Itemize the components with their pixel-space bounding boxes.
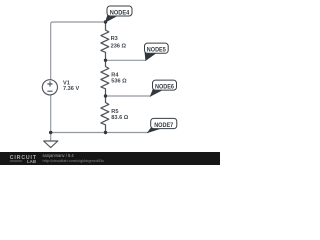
footer watermark bar bbox=[0, 152, 220, 165]
junction dot top of chain bbox=[104, 20, 107, 23]
schematic background bbox=[0, 0, 220, 165]
junction node bottom of chain bbox=[104, 131, 107, 134]
ground bbox=[44, 141, 58, 148]
svg-text:http://circuitlab.com/c/gkkbgm: http://circuitlab.com/c/gkkbgmxd93c bbox=[43, 158, 105, 163]
junction node between R4 and R5 bbox=[104, 94, 107, 97]
wire: left vertical below source down to ground stub bbox=[50, 95, 52, 141]
svg-text:536 Ω: 536 Ω bbox=[111, 79, 127, 85]
svg-text:7.36 V: 7.36 V bbox=[63, 86, 79, 92]
label V1 value bbox=[63, 80, 79, 92]
svg-text:236 Ω: 236 Ω bbox=[111, 43, 127, 49]
footer credit text bbox=[43, 153, 105, 163]
svg-text:LAB: LAB bbox=[27, 159, 36, 164]
resistor R5 bbox=[101, 96, 109, 133]
wire: bottom horizontal run bbox=[51, 132, 149, 134]
svg-text:NODE4: NODE4 bbox=[110, 9, 130, 16]
wire: left vertical top + top horizontal run to resistor chain bbox=[51, 22, 106, 80]
junction node at ground bbox=[49, 131, 52, 134]
node NODE5 flag bbox=[145, 43, 169, 60]
wire: NODE6 stub bbox=[106, 95, 152, 97]
voltage source V1 bbox=[42, 80, 57, 95]
node NODE4 flag bbox=[106, 6, 133, 22]
svg-text:NODE7: NODE7 bbox=[154, 122, 173, 129]
resistor R3 bbox=[101, 22, 109, 60]
svg-text:NODE5: NODE5 bbox=[147, 47, 166, 54]
CircuitLab logo bbox=[10, 155, 37, 164]
node NODE6 flag bbox=[151, 80, 177, 96]
svg-text:NODE6: NODE6 bbox=[155, 84, 174, 91]
label R3 value bbox=[111, 36, 127, 50]
junction node between R3 and R4 bbox=[104, 59, 107, 62]
label R5 value bbox=[111, 109, 128, 121]
wire: NODE5 stub bbox=[106, 59, 147, 61]
resistor R4 bbox=[101, 60, 109, 96]
label R4 value bbox=[111, 73, 127, 85]
svg-text:83.6 Ω: 83.6 Ω bbox=[111, 115, 128, 121]
node NODE7 flag bbox=[148, 118, 177, 132]
svg-text:R3: R3 bbox=[111, 36, 118, 42]
